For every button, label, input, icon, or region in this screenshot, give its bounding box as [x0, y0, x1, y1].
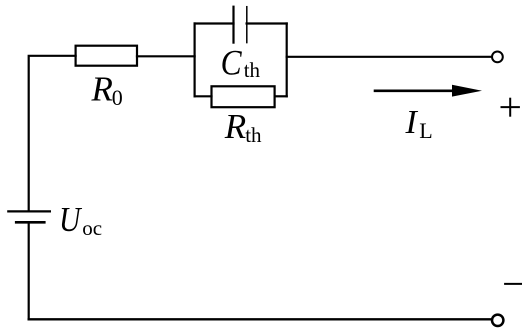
svg-text:0: 0 — [112, 85, 123, 110]
svg-text:U: U — [59, 200, 83, 239]
svg-text:C: C — [221, 42, 243, 82]
svg-text:L: L — [419, 118, 432, 143]
svg-text:R: R — [224, 107, 246, 146]
svg-text:oc: oc — [82, 216, 102, 240]
svg-text:th: th — [244, 58, 261, 82]
svg-text:R: R — [91, 69, 113, 108]
svg-text:th: th — [245, 123, 262, 147]
svg-text:I: I — [405, 104, 419, 141]
